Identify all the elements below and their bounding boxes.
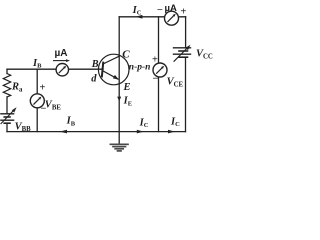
- wire: VCC branch upper: [185, 17, 187, 48]
- voltmeter VCE needle: [157, 67, 163, 73]
- voltmeter VBE needle: [34, 98, 40, 104]
- transistor Q1 (n-p-n) body circle: [98, 54, 129, 85]
- microammeter A1 needle: [59, 67, 65, 73]
- svg-text:IC: IC: [170, 117, 180, 129]
- arrow IC bottom mid (rightward): [137, 130, 144, 134]
- battery VCC variable arrow: [174, 47, 189, 62]
- wire: collector riser / transistor vertical / emitter riser: [118, 17, 120, 132]
- arrow IC bottom right (rightward): [168, 130, 175, 134]
- arrow IE (downward on emitter riser): [117, 97, 121, 102]
- svg-text:IE: IE: [123, 96, 132, 108]
- wire: left vertical between Ra and VBB: [6, 97, 8, 114]
- svg-text:VBB: VBB: [15, 121, 32, 133]
- svg-text:C: C: [122, 48, 130, 60]
- svg-text:Ra: Ra: [11, 82, 23, 94]
- wire: VCE meter branch: [158, 17, 160, 132]
- battery VCC plates: [174, 47, 191, 49]
- svg-text:µA: µA: [165, 3, 177, 14]
- svg-text:µA: µA: [55, 48, 68, 59]
- svg-text:+: +: [181, 7, 187, 18]
- svg-text:IC: IC: [139, 118, 149, 130]
- transistor base bar: [102, 63, 103, 77]
- svg-text:VBE: VBE: [45, 100, 62, 112]
- battery VBB variable arrow: [1, 109, 15, 123]
- svg-text:IC: IC: [132, 5, 142, 17]
- svg-text:−: −: [153, 74, 159, 85]
- arrow IC top (leftward on top rail): [135, 15, 142, 19]
- svg-text:E: E: [123, 82, 131, 93]
- microammeter A1 (base) direction arrow: [54, 60, 68, 62]
- wire: top rail: [119, 16, 185, 18]
- wire: VCC branch lower: [185, 57, 187, 131]
- wire: left vertical (Ra / VBB branch) upper: [6, 69, 8, 73]
- transistor emitter lead: [103, 71, 118, 79]
- microammeter A2 (collector) body: [165, 11, 179, 25]
- voltmeter VBE body: [30, 94, 44, 108]
- microammeter A1 (base) body: [56, 63, 68, 75]
- transistor collector lead: [103, 56, 119, 64]
- ground bars: [110, 144, 128, 151]
- ground stem: [118, 132, 120, 144]
- svg-text:B: B: [91, 59, 99, 70]
- svg-text:IB: IB: [32, 58, 42, 70]
- arrow IB bottom (leftward on bottom rail): [60, 130, 68, 134]
- transistor emitter arrowhead: [113, 75, 119, 80]
- svg-text:VCE: VCE: [167, 77, 184, 89]
- voltmeter VCE body: [153, 63, 167, 77]
- svg-text:n-p-n: n-p-n: [129, 63, 151, 73]
- wire: base loop top (left corner to base): [7, 68, 103, 70]
- svg-text:IB: IB: [66, 116, 76, 128]
- wire: left vertical below VBB: [6, 123, 8, 131]
- svg-text:+: +: [152, 55, 158, 66]
- microammeter A2 needle: [168, 15, 174, 21]
- svg-text:VCC: VCC: [196, 49, 213, 61]
- svg-text:d: d: [91, 74, 97, 85]
- wire: bottom rail: [7, 131, 186, 133]
- wire: VBE meter branch: [36, 69, 38, 131]
- battery VBB plates: [1, 113, 14, 115]
- resistor Ra zigzag: [3, 74, 10, 98]
- svg-text:−: −: [157, 5, 163, 16]
- svg-text:+: +: [40, 83, 46, 94]
